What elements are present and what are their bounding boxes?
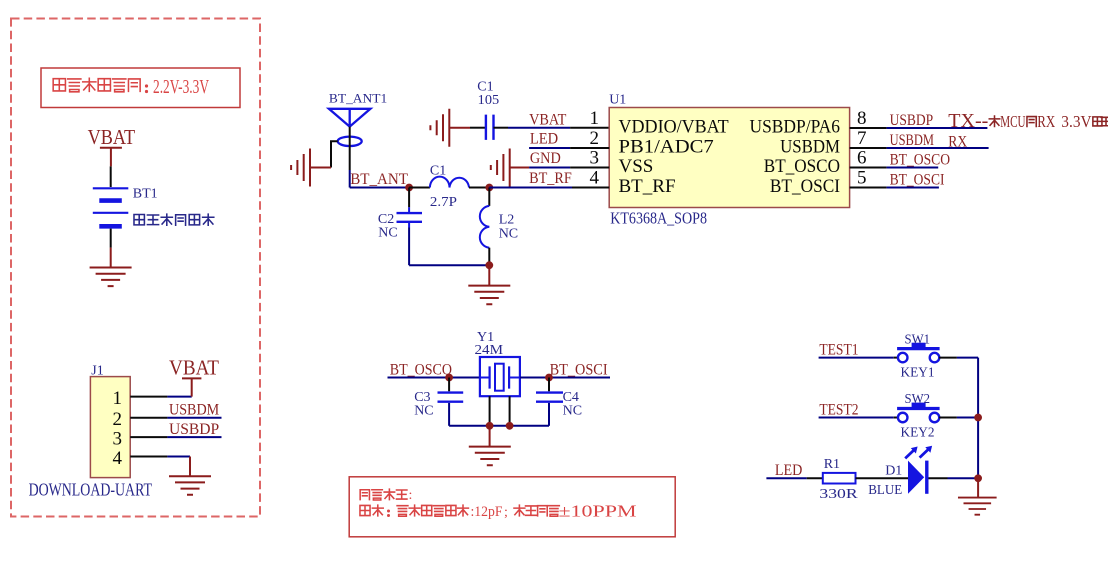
- label L2 / NC: [499, 213, 518, 242]
- svg-text:BT_RF: BT_RF: [529, 170, 572, 187]
- wire TEST1: [819, 357, 899, 359]
- node BT_RF junction: [485, 184, 493, 192]
- wire pin4 BT_RF: [489, 187, 609, 189]
- svg-text:2.7P: 2.7P: [430, 195, 457, 210]
- ground (LED/switch rail): [958, 498, 997, 515]
- wire J1 pin3: [130, 436, 221, 438]
- svg-text:USBDM: USBDM: [169, 402, 219, 419]
- switch SW2 (KEY2): [897, 403, 940, 423]
- wire TEST2: [819, 417, 899, 419]
- svg-text:2: 2: [590, 128, 600, 149]
- wire pin3 GND: [510, 167, 610, 169]
- value 105: [478, 93, 500, 108]
- svg-text:NC: NC: [563, 404, 582, 419]
- ground (C1 105): [430, 109, 449, 147]
- svg-text:±10PPM: ±10PPM: [559, 502, 637, 521]
- wire SW2 to rail: [939, 417, 978, 419]
- ground (battery): [90, 268, 132, 287]
- U1 right pin names: [750, 117, 841, 198]
- ground (GND pin3): [491, 149, 510, 187]
- label D1: [885, 464, 902, 479]
- svg-text:330R: 330R: [819, 487, 858, 502]
- crystal Y1 body: [480, 357, 520, 396]
- svg-text:5: 5: [857, 167, 867, 188]
- svg-text:GND: GND: [530, 150, 561, 167]
- inductor L2 NC (shunt): [480, 188, 489, 266]
- label C2 / NC: [378, 212, 398, 241]
- net label BT_RF (pin4): [529, 170, 572, 187]
- U1 right pin numbers 8-5: [857, 108, 867, 189]
- IC U1 designator: [609, 93, 626, 108]
- node BT_ANT junction: [405, 184, 413, 192]
- label: single coin-cell battery: [134, 214, 214, 225]
- label C1: [430, 164, 446, 179]
- svg-text:1: 1: [590, 108, 600, 129]
- U1 left pin names: [619, 117, 730, 198]
- svg-text:KEY2: KEY2: [901, 426, 935, 441]
- wire C1 to BT_RF node: [469, 187, 489, 189]
- wire bus to ground: [489, 426, 491, 447]
- wire C1 to VBAT pin: [494, 127, 610, 129]
- svg-text:BLUE: BLUE: [868, 483, 902, 498]
- svg-text:7: 7: [857, 128, 867, 149]
- svg-text:BT_OSCO: BT_OSCO: [390, 362, 452, 379]
- wire battery to ground: [110, 229, 112, 268]
- svg-text:BT_RF: BT_RF: [619, 176, 676, 197]
- net label LED (pin2): [530, 130, 558, 147]
- net label LED: [775, 462, 803, 479]
- svg-text:PB1/ADC7: PB1/ADC7: [619, 137, 714, 158]
- value 24M: [475, 343, 504, 358]
- svg-text:NC: NC: [414, 404, 433, 419]
- note box: crystal selection requirements: [349, 477, 675, 537]
- svg-text:2.2V-3.3V: 2.2V-3.3V: [153, 76, 209, 98]
- value 330R: [819, 487, 858, 502]
- label Y1: [477, 330, 494, 345]
- svg-text:BT_OSCI: BT_OSCI: [770, 176, 840, 197]
- svg-text:BT_OSCI: BT_OSCI: [550, 362, 608, 379]
- wire to ground: [488, 265, 490, 285]
- label SW2: [905, 392, 931, 407]
- capacitor C1 105 plates: [486, 115, 494, 140]
- node bottom junction: [485, 261, 493, 269]
- power net VBAT (battery): [88, 125, 136, 166]
- net label USBDP (J1): [169, 421, 219, 438]
- ground (matching network): [468, 286, 510, 305]
- svg-text:VSS: VSS: [619, 156, 654, 177]
- svg-text:BT_OSCO: BT_OSCO: [890, 151, 951, 168]
- svg-text:BT_OSCI: BT_OSCI: [890, 171, 945, 188]
- svg-text:U1: U1: [609, 93, 626, 108]
- antenna BT_ANT1 label: [329, 91, 387, 106]
- wire J1 pin2: [130, 417, 221, 419]
- ground (crystal): [469, 447, 511, 466]
- LED D1 symbol: [905, 446, 932, 494]
- wire J1 pin1: [130, 396, 192, 398]
- svg-text:KEY1: KEY1: [901, 366, 935, 381]
- node OSCI junction: [545, 374, 553, 382]
- svg-text:USBDM: USBDM: [890, 132, 935, 149]
- J1 pin numbers 1-4: [113, 388, 123, 469]
- net label RX: [948, 133, 967, 150]
- net label BT_ANT: [350, 171, 408, 188]
- net label USBDM (J1): [169, 402, 219, 419]
- label KEY2: [901, 426, 935, 441]
- antenna BT_ANT1 symbol: [329, 109, 371, 146]
- net label TEST2: [819, 401, 858, 418]
- wire BT_OSCO to crystal: [388, 377, 480, 379]
- svg-text:BT_ANT: BT_ANT: [350, 171, 408, 188]
- svg-text:TEST1: TEST1: [819, 341, 858, 358]
- svg-text:C1: C1: [430, 164, 446, 179]
- power net VBAT (J1): [169, 356, 219, 397]
- label KEY1: [901, 366, 935, 381]
- label C1 (decoupling): [477, 80, 493, 95]
- label C3 / NC: [414, 390, 433, 419]
- wire antenna down: [349, 127, 351, 188]
- net label USBDM (pin7): [890, 132, 935, 149]
- value 2.7P: [430, 195, 457, 210]
- ground (antenna): [291, 149, 310, 187]
- capacitor C1 2.7P (series, drawn as humps): [430, 177, 469, 188]
- svg-text:USBDP/PA6: USBDP/PA6: [750, 117, 841, 138]
- node bus junction left: [486, 422, 494, 430]
- label DOWNLOAD-UART: [29, 480, 152, 500]
- svg-text:NC: NC: [499, 227, 518, 242]
- node OSCO junction: [445, 374, 453, 382]
- svg-text:RX: RX: [948, 133, 967, 150]
- svg-text:1: 1: [113, 388, 123, 409]
- svg-text:TEST2: TEST2: [819, 401, 858, 418]
- svg-text:BT_OSCO: BT_OSCO: [764, 156, 840, 177]
- svg-text:KT6368A_SOP8: KT6368A_SOP8: [610, 209, 707, 228]
- svg-text::12pF: :12pF: [471, 504, 503, 520]
- svg-text:USBDP: USBDP: [890, 112, 934, 129]
- svg-text:L2: L2: [499, 213, 515, 228]
- wire right vertical rail: [977, 358, 979, 479]
- svg-text:D1: D1: [885, 464, 902, 479]
- node rail junction SW2: [974, 414, 982, 422]
- net label BT_OSCO (pin6): [890, 151, 951, 168]
- net label VBAT (pin1): [529, 111, 567, 128]
- net label BT_OSCO (crystal): [390, 362, 452, 379]
- wire R1 to D1: [856, 477, 909, 479]
- wire ground to C1: [449, 127, 486, 129]
- svg-text:R1: R1: [824, 457, 840, 472]
- U1 left pin numbers 1-4: [590, 108, 600, 189]
- svg-text:4: 4: [113, 448, 123, 469]
- label BLUE: [868, 483, 902, 498]
- note box: power supply range 2.2V-3.3V: [41, 68, 240, 108]
- svg-text:VBAT: VBAT: [169, 356, 219, 380]
- net label BT_OSCI (pin5): [890, 171, 945, 188]
- wire to C1: [409, 187, 430, 189]
- svg-text:LED: LED: [530, 130, 558, 147]
- svg-text:SW2: SW2: [905, 392, 931, 407]
- svg-text:VBAT: VBAT: [88, 125, 136, 149]
- net label BT_OSCI (crystal): [550, 362, 608, 379]
- wire pin2 LED: [529, 147, 609, 149]
- svg-text:;: ;: [504, 505, 508, 520]
- svg-text:USBDM: USBDM: [780, 137, 840, 158]
- wire crystal to BT_OSCI: [520, 377, 610, 379]
- svg-text:3: 3: [113, 429, 123, 450]
- dashed power-supply region border: [11, 19, 260, 517]
- svg-text:VDDIO/VBAT: VDDIO/VBAT: [619, 117, 730, 138]
- svg-text:3.3V: 3.3V: [1061, 112, 1092, 131]
- label R1: [824, 457, 840, 472]
- wires U1 right pins: [850, 128, 989, 188]
- wire BT_ANT node: [350, 187, 409, 189]
- node rail junction LED: [974, 474, 982, 482]
- connector J1 designator: [91, 364, 103, 379]
- svg-text:DOWNLOAD-UART: DOWNLOAD-UART: [29, 480, 152, 500]
- svg-text:BT_ANT1: BT_ANT1: [329, 91, 387, 106]
- ground (J1 pin4): [169, 476, 211, 495]
- svg-text:USBDP: USBDP: [169, 421, 219, 438]
- connector J1 body: [90, 377, 130, 478]
- svg-text:6: 6: [857, 147, 867, 168]
- svg-text:105: 105: [478, 93, 500, 108]
- wire C2/L2 bottom bus: [409, 264, 489, 266]
- node bus junction right: [506, 422, 514, 430]
- svg-text:TX--: TX--: [948, 110, 988, 132]
- wire J1 pin4: [130, 457, 190, 477]
- svg-text:SW1: SW1: [905, 332, 931, 347]
- svg-text:RX: RX: [1037, 112, 1055, 131]
- label SW1: [905, 332, 931, 347]
- svg-text:BT1: BT1: [133, 187, 158, 202]
- svg-text:8: 8: [857, 108, 867, 129]
- note TX--接MCU的RX 3.3V电平: [948, 110, 1108, 132]
- svg-text:MCU: MCU: [1000, 112, 1025, 131]
- wire LED to R1: [766, 477, 822, 479]
- op-amp/IC U1 body KT6368A_SOP8: [609, 108, 849, 208]
- net label USBDP (pin8): [890, 112, 934, 129]
- capacitor C3 NC: [438, 378, 464, 426]
- net label GND (pin3): [530, 150, 561, 167]
- wire VBAT to battery: [110, 166, 112, 187]
- wire SW1 to rail: [939, 357, 978, 359]
- resistor R1: [823, 473, 856, 484]
- wire D1 to rail: [929, 477, 979, 479]
- switch SW1 (KEY1): [897, 343, 940, 363]
- svg-text:VBAT: VBAT: [529, 111, 567, 128]
- svg-text:NC: NC: [378, 226, 397, 241]
- wire rail to ground: [977, 478, 979, 497]
- label BT1: [133, 187, 158, 202]
- net label TEST1: [819, 341, 858, 358]
- svg-text:24M: 24M: [475, 343, 504, 358]
- capacitor C2 NC (shunt): [397, 188, 423, 266]
- svg-text:3: 3: [590, 147, 600, 168]
- svg-text:4: 4: [590, 167, 600, 188]
- label KT6368A_SOP8: [610, 209, 707, 228]
- svg-text::: :: [409, 488, 413, 503]
- label C4 / NC: [563, 390, 582, 419]
- capacitor C4 NC: [536, 378, 563, 426]
- svg-text:LED: LED: [775, 462, 803, 479]
- wire antenna to ground tap: [310, 141, 338, 167]
- svg-text:2: 2: [113, 409, 123, 430]
- battery BT1: [93, 188, 129, 226]
- wire crystal ground bus: [449, 396, 549, 426]
